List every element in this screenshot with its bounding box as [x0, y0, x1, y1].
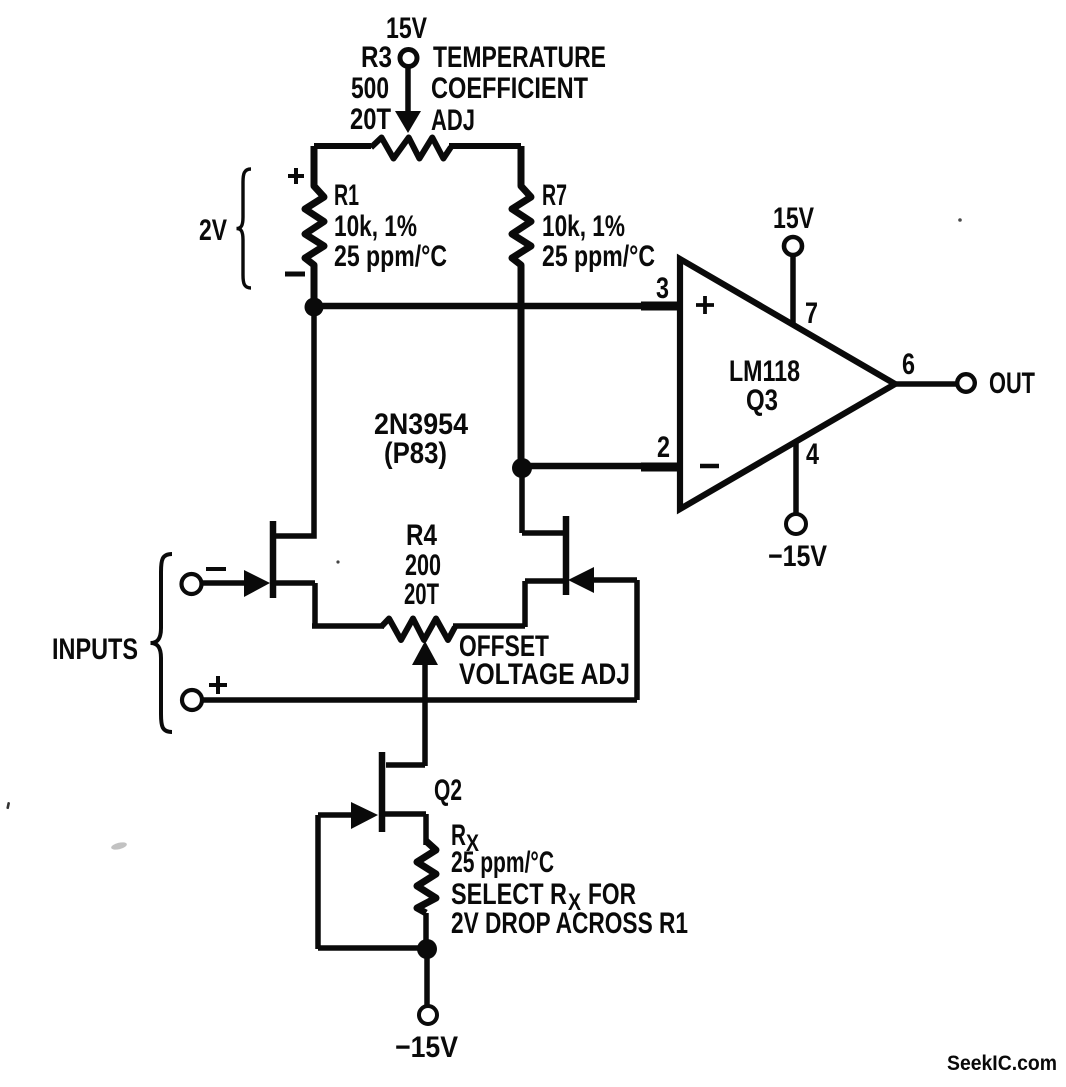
arrowhead right JFET gate: [568, 567, 594, 593]
terminal op-amp -15V: [786, 514, 806, 534]
potentiometer R4 zigzag: [381, 619, 455, 641]
svg-text:OUT: OUT: [989, 367, 1035, 400]
wire node to pin3: [314, 303, 680, 310]
brace 2V: [237, 169, 252, 288]
svg-text:Q2: Q2: [434, 774, 462, 807]
wire RX to node: [423, 913, 429, 949]
speckle smudge: [110, 841, 127, 851]
wire right JFET gate lead: [592, 580, 637, 700]
svg-text:25 ppm/°C: 25 ppm/°C: [542, 240, 655, 273]
svg-text:2: 2: [657, 431, 670, 464]
svg-text:COEFFICIENT: COEFFICIENT: [431, 72, 588, 105]
wire node to pin2: [522, 463, 680, 470]
svg-text:25 ppm/°C: 25 ppm/°C: [451, 846, 554, 879]
wire pin2 stub: [641, 463, 680, 472]
wire pin3 stub: [641, 302, 680, 311]
terminal OUT: [957, 374, 975, 392]
svg-text:15V: 15V: [386, 12, 427, 45]
svg-text:10k, 1%: 10k, 1%: [334, 210, 417, 243]
minus sign input: [206, 567, 226, 571]
terminal 15V top: [400, 50, 417, 67]
svg-text:VOLTAGE ADJ: VOLTAGE ADJ: [459, 658, 630, 691]
wire R3 wiper shaft: [405, 66, 411, 114]
svg-text:20T: 20T: [350, 103, 391, 136]
speckle dot: [958, 218, 962, 222]
terminal -15V bottom: [419, 1006, 437, 1024]
transistor Q2 channel bar: [379, 752, 386, 832]
wire right JFET drain: [522, 468, 563, 533]
brace INPUTS: [151, 554, 173, 732]
op-amp U1 LM118 triangle: [680, 259, 895, 509]
wire op-amp output: [894, 381, 956, 387]
wire Q2 gate feedback loop: [318, 815, 427, 949]
terminal plus input: [182, 690, 202, 710]
svg-text:−15V: −15V: [768, 540, 827, 573]
svg-text:−15V: −15V: [395, 1031, 458, 1064]
svg-text:2V DROP ACROSS R1: 2V DROP ACROSS R1: [451, 907, 688, 940]
svg-text:4: 4: [806, 438, 819, 471]
plus sign input: [209, 676, 227, 694]
svg-text:R1: R1: [334, 179, 359, 212]
svg-text:INPUTS: INPUTS: [52, 633, 138, 666]
junction node C (RX bottom): [417, 939, 437, 959]
wire top rail: [314, 143, 371, 149]
arrowhead left JFET gate: [244, 570, 270, 597]
svg-text:ADJ: ADJ: [431, 104, 475, 137]
speckle tick left edge: [6, 802, 10, 809]
arrowhead R3 wiper: [395, 111, 421, 133]
svg-text:(P83): (P83): [384, 437, 447, 470]
svg-text:25 ppm/°C: 25 ppm/°C: [334, 240, 447, 273]
svg-text:6: 6: [902, 348, 915, 381]
potentiometer R3 zigzag: [371, 138, 451, 159]
svg-text:R3: R3: [361, 41, 392, 74]
wire R4 wiper shaft: [422, 660, 428, 766]
terminal minus input: [182, 574, 202, 594]
wire node to -15V terminal: [424, 949, 430, 1006]
arrowhead Q2 gate: [351, 802, 378, 829]
transistor Q1a channel bar: [270, 521, 277, 598]
resistor R7: [512, 146, 531, 468]
minus sign op-amp: [700, 464, 719, 469]
svg-text:Q3: Q3: [746, 384, 778, 417]
junction node B (R7 bottom): [512, 458, 532, 478]
transistor Q1b channel bar: [563, 516, 570, 595]
svg-text:7: 7: [805, 297, 818, 330]
svg-text:15V: 15V: [773, 202, 814, 235]
plus sign op-amp: [696, 296, 714, 314]
svg-text:500: 500: [351, 72, 389, 105]
wire plus input: [200, 697, 637, 703]
speckle dot: [336, 560, 339, 563]
wire right JFET source: [453, 581, 563, 627]
svg-text:10k, 1%: 10k, 1%: [542, 210, 625, 243]
minus sign R1 bottom: [285, 272, 305, 277]
plus sign R1 top: [288, 168, 304, 184]
junction node A (R1 bottom): [305, 298, 324, 317]
wire left JFET source: [276, 583, 384, 627]
svg-text:20T: 20T: [404, 578, 439, 611]
svg-text:R4: R4: [406, 519, 437, 552]
wire op-amp V- pin4: [793, 440, 799, 515]
wire op-amp V+ pin7: [790, 255, 796, 330]
svg-text:3: 3: [656, 272, 669, 305]
wire top rail right: [449, 143, 521, 149]
wire left JFET drain: [276, 307, 314, 536]
svg-text:SeekIC.com: SeekIC.com: [947, 1052, 1057, 1075]
arrowhead R4 wiper: [412, 641, 438, 665]
svg-text:TEMPERATURE: TEMPERATURE: [433, 41, 606, 74]
svg-text:R7: R7: [542, 179, 567, 212]
svg-text:2V: 2V: [199, 214, 227, 247]
wire Q2 drain: [386, 762, 425, 768]
resistor R1: [305, 146, 324, 308]
wire Q2 source: [385, 814, 426, 845]
resistor RX: [417, 841, 436, 913]
terminal op-amp 15V: [784, 237, 802, 255]
wire left JFET gate lead: [200, 580, 246, 586]
